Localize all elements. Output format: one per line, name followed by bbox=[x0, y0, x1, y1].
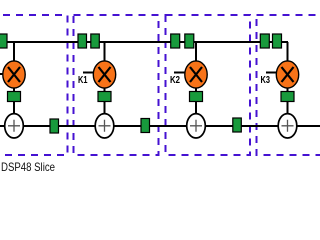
register: slice4 M reg bbox=[281, 92, 294, 102]
multiplier: slice1 bbox=[3, 61, 25, 88]
wire: slice2 coefficient input K1 bbox=[83, 72, 95, 74]
wire: slice3 M register to adder bbox=[195, 101, 197, 115]
register: slice2 input reg A bbox=[78, 34, 87, 48]
svg-text:K3: K3 bbox=[261, 75, 271, 86]
register: slice2 M reg bbox=[98, 92, 111, 102]
multiplier: slice4 bbox=[276, 61, 298, 88]
multiplier: slice2 bbox=[93, 61, 115, 88]
wire: slice1 coefficient input bbox=[0, 73, 5, 75]
DSP48 slice box 2 (dashed) bbox=[74, 15, 159, 155]
adder: slice2 bbox=[95, 114, 114, 138]
adder: slice1 bbox=[5, 114, 24, 138]
register: slice3 M reg bbox=[190, 92, 203, 102]
multiplier: slice3 bbox=[185, 61, 207, 88]
wire: slice2 drop to multiplier bbox=[104, 42, 106, 62]
wire: p output cascade (bottom horizontal) bbox=[0, 125, 320, 127]
wire: slice4 corner drop to multiplier bbox=[287, 42, 289, 62]
register: slice4 input reg B bbox=[273, 34, 282, 48]
svg-text:K2: K2 bbox=[170, 75, 180, 86]
wire: slice3 drop to multiplier bbox=[195, 42, 197, 62]
wire: slice3 coefficient input K2 bbox=[174, 72, 187, 74]
register: slice1 M reg bbox=[8, 92, 21, 102]
wire: slice4 M register to adder bbox=[287, 101, 289, 115]
adder: slice3 bbox=[187, 114, 206, 138]
wire: slice1 multiplier to M register bbox=[13, 87, 15, 92]
register: slice3 input reg A bbox=[171, 34, 180, 48]
svg-text:DSP48 Slice: DSP48 Slice bbox=[1, 161, 55, 174]
register: slice4 input reg A bbox=[260, 34, 269, 48]
wire: slice1 drop to multiplier bbox=[13, 42, 15, 62]
register: slice1 P reg bbox=[50, 119, 59, 133]
register: slice2 input reg B bbox=[91, 34, 100, 48]
adder: slice4 bbox=[278, 114, 297, 138]
DSP48 slice box 3 (dashed) bbox=[166, 15, 251, 155]
DSP48 slice box 1 (dashed) bbox=[0, 15, 68, 155]
svg-text:K1: K1 bbox=[78, 75, 88, 86]
register: slice1 input reg (cut at left edge) bbox=[0, 34, 7, 48]
wire: slice1 M register to adder bbox=[13, 101, 15, 115]
wire: slice4 multiplier to M register bbox=[287, 87, 289, 92]
wire: slice4 coefficient input K3 bbox=[266, 72, 278, 74]
register: slice3 input reg B bbox=[185, 34, 194, 48]
register: slice3 P reg bbox=[233, 118, 242, 132]
DSP48 slice box 4 (dashed) bbox=[257, 15, 320, 155]
wire: slice2 multiplier to M register bbox=[104, 87, 106, 92]
wire: slice2 M register to adder bbox=[104, 101, 106, 115]
wire: x input cascade (top horizontal) bbox=[0, 41, 288, 43]
wire: slice3 multiplier to M register bbox=[195, 87, 197, 92]
register: slice2 P reg bbox=[141, 119, 150, 133]
